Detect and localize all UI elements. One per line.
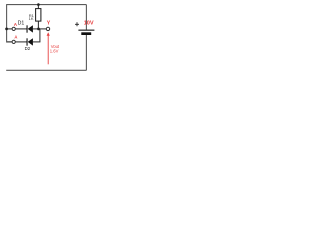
junction node Y <box>37 28 40 31</box>
svg-text:1K: 1K <box>29 16 34 21</box>
junction dot top rail <box>37 3 40 6</box>
wire D1 to node Y <box>33 28 46 30</box>
diode D2 cathode bar <box>27 38 28 45</box>
wire bottom rail <box>6 69 86 71</box>
svg-text:1.6V: 1.6V <box>50 49 59 54</box>
diode D1 triangle <box>28 25 33 32</box>
wire branch A to diode <box>15 28 26 30</box>
wire resistor bottom stem <box>37 21 39 29</box>
wire branch B to diode <box>15 41 26 43</box>
diode D2 triangle <box>28 38 33 45</box>
terminal Y <box>46 27 49 30</box>
svg-text:A: A <box>14 35 17 40</box>
battery minus plate <box>81 32 91 35</box>
diode D1 cathode bar <box>27 25 28 32</box>
battery plus plate <box>78 30 94 31</box>
terminal B <box>12 40 15 43</box>
junction dot left rail <box>5 28 8 31</box>
resistor R1 body <box>36 9 41 22</box>
wire left rail <box>6 5 8 42</box>
Vout arrow head <box>47 32 50 36</box>
Vout arrow line <box>47 34 49 64</box>
svg-text:10V: 10V <box>84 20 94 26</box>
terminal A <box>12 27 15 30</box>
wire branch B left <box>7 41 12 43</box>
svg-text:Y: Y <box>47 21 51 27</box>
wire vertical join to node <box>39 29 41 42</box>
svg-text:D1: D1 <box>18 20 25 26</box>
wire right rail upper <box>85 5 87 30</box>
svg-text:D2: D2 <box>25 46 31 51</box>
wire right rail lower <box>85 35 87 70</box>
wire branch A left <box>7 28 12 30</box>
wire corner B <box>6 41 12 43</box>
wire D2 to vertical join <box>33 41 41 43</box>
wire top rail <box>6 4 86 6</box>
battery plus sign <box>75 22 79 26</box>
wire resistor top stem <box>37 5 39 9</box>
